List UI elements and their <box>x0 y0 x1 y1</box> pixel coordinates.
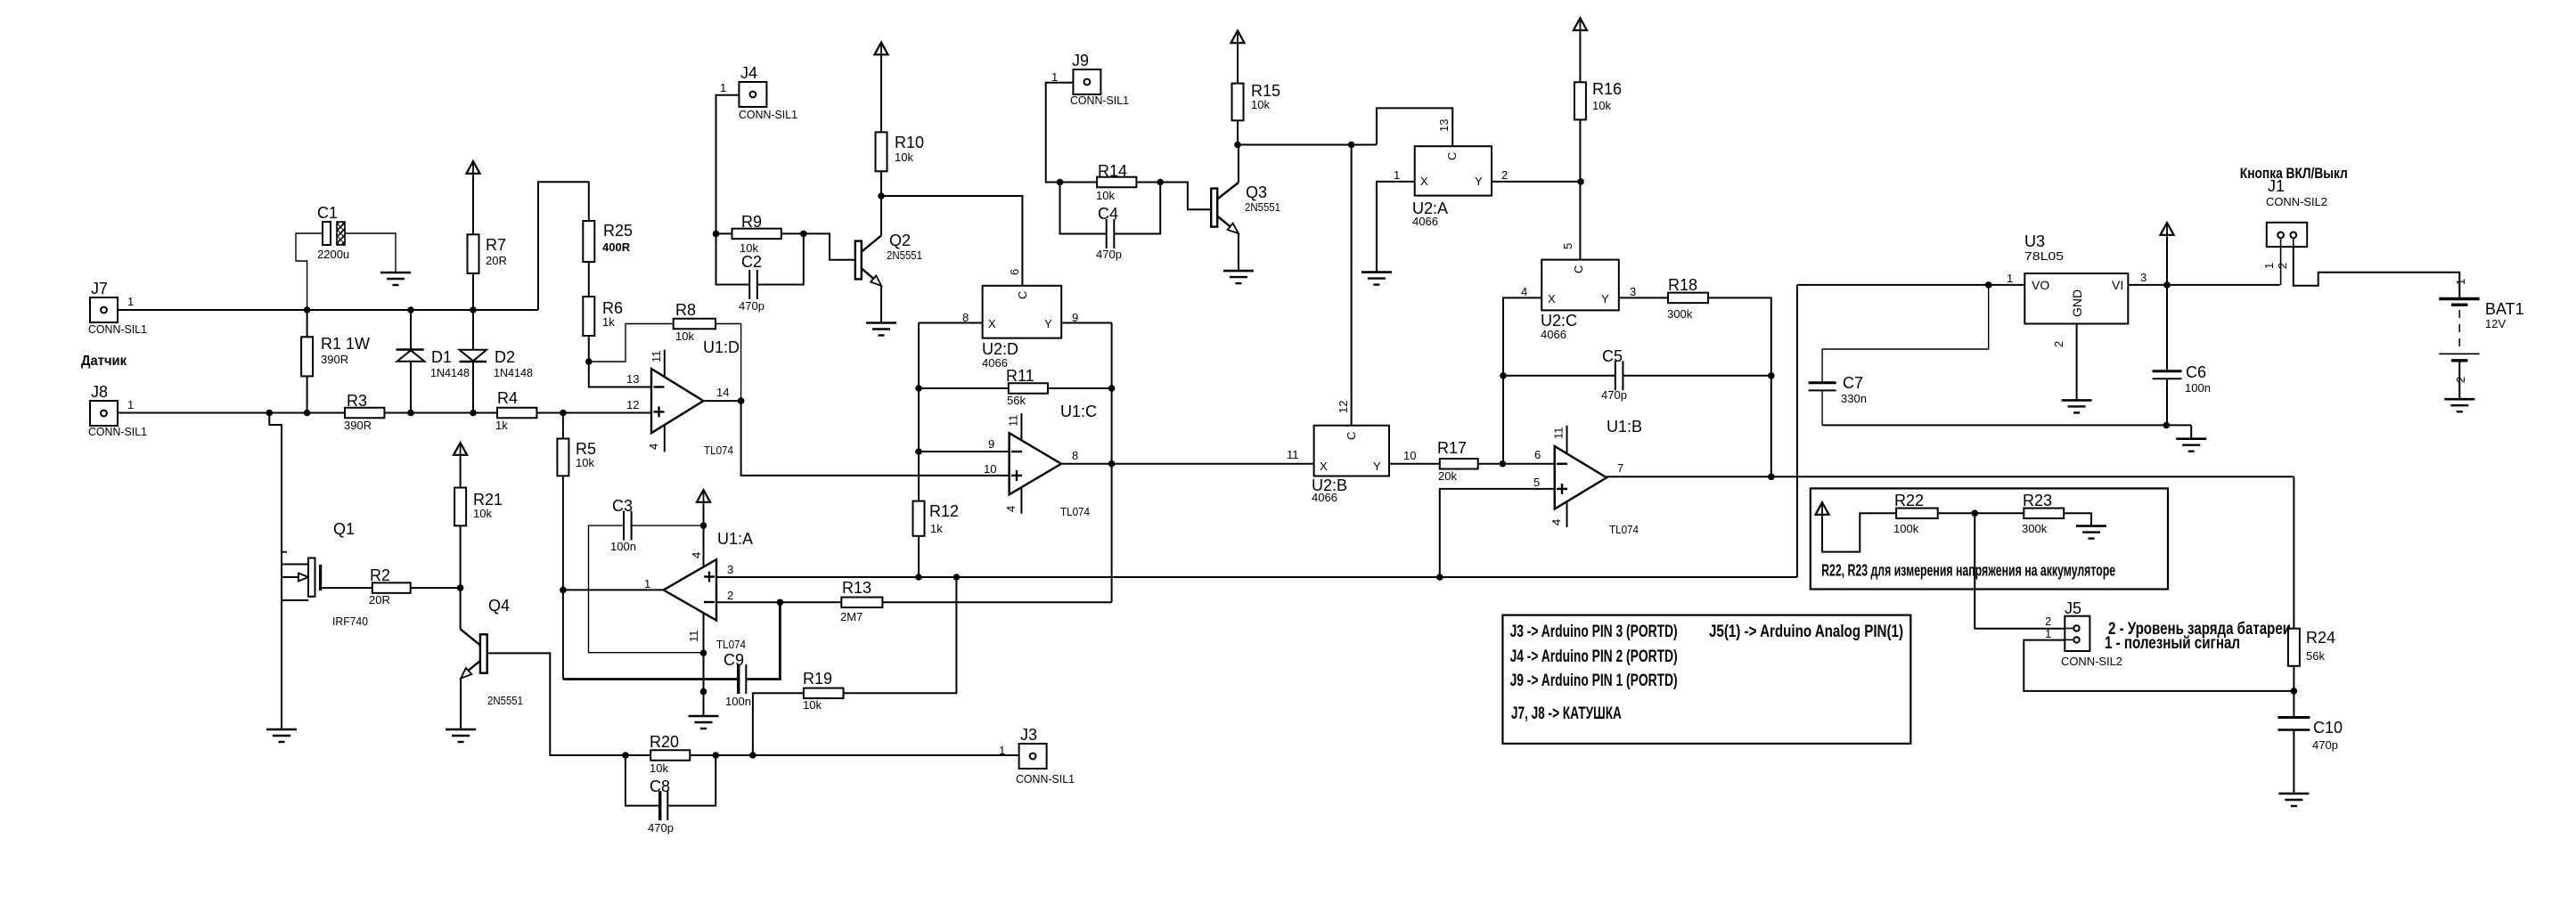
svg-text:R9: R9 <box>741 213 762 231</box>
svg-text:4: 4 <box>1550 519 1563 525</box>
svg-text:20k: 20k <box>1438 469 1457 483</box>
svg-text:Q2: Q2 <box>889 232 911 249</box>
svg-text:4066: 4066 <box>1541 328 1566 341</box>
svg-text:1: 1 <box>2007 272 2013 285</box>
svg-text:10k: 10k <box>650 761 668 775</box>
svg-text:2: 2 <box>2052 341 2065 347</box>
svg-text:4066: 4066 <box>982 356 1008 370</box>
svg-text:20R: 20R <box>369 593 390 607</box>
svg-text:U1:C: U1:C <box>1060 403 1097 420</box>
svg-text:IRF740: IRF740 <box>332 615 368 628</box>
svg-text:R20: R20 <box>650 733 679 751</box>
svg-text:10: 10 <box>984 462 996 476</box>
svg-text:13: 13 <box>1437 119 1451 132</box>
svg-text:C: C <box>1016 291 1029 299</box>
svg-text:2N5551: 2N5551 <box>1245 200 1280 214</box>
svg-text:J3: J3 <box>1020 726 1037 744</box>
svg-text:R3: R3 <box>347 392 367 410</box>
svg-text:R7: R7 <box>486 236 506 254</box>
svg-text:3: 3 <box>2140 271 2147 284</box>
svg-text:U2:D: U2:D <box>982 340 1018 358</box>
svg-text:2: 2 <box>2045 615 2051 628</box>
svg-text:4: 4 <box>1004 506 1018 512</box>
svg-text:300k: 300k <box>1667 307 1693 321</box>
svg-text:1k: 1k <box>602 315 615 329</box>
svg-text:10k: 10k <box>1592 99 1611 112</box>
svg-text:20R: 20R <box>486 254 507 267</box>
svg-text:C5: C5 <box>1602 347 1623 365</box>
svg-text:2: 2 <box>2454 377 2467 383</box>
svg-text:U1:A: U1:A <box>717 530 753 548</box>
svg-text:100n: 100n <box>725 695 751 708</box>
svg-text:J5: J5 <box>2065 599 2081 617</box>
svg-text:4: 4 <box>1521 285 1527 298</box>
svg-text:1: 1 <box>127 295 134 308</box>
svg-text:Кнопка ВКЛ/Выкл: Кнопка ВКЛ/Выкл <box>2240 165 2348 182</box>
svg-text:BAT1: BAT1 <box>2485 300 2524 318</box>
svg-text:100n: 100n <box>610 540 636 553</box>
svg-text:C1: C1 <box>317 204 338 222</box>
svg-text:U3: U3 <box>2024 232 2045 250</box>
svg-text:13: 13 <box>626 372 639 386</box>
svg-text:400R: 400R <box>602 240 631 254</box>
svg-text:1 - полезный сигнал: 1 - полезный сигнал <box>2105 634 2240 653</box>
svg-text:56k: 56k <box>1007 394 1026 407</box>
svg-text:C2: C2 <box>741 253 762 271</box>
svg-text:4: 4 <box>690 552 703 558</box>
svg-text:78L05: 78L05 <box>2024 249 2064 263</box>
svg-text:4: 4 <box>647 444 660 450</box>
svg-text:470p: 470p <box>648 821 674 835</box>
svg-text:14: 14 <box>716 386 729 399</box>
svg-text:11: 11 <box>650 351 663 363</box>
svg-text:300k: 300k <box>2022 522 2048 535</box>
svg-text:330n: 330n <box>1841 392 1867 405</box>
svg-text:C6: C6 <box>2186 363 2206 381</box>
svg-text:R23: R23 <box>2023 492 2052 509</box>
svg-text:470p: 470p <box>1601 388 1627 402</box>
svg-text:C9: C9 <box>724 651 744 669</box>
svg-text:J1: J1 <box>2268 177 2285 195</box>
svg-text:Y: Y <box>1373 460 1381 473</box>
svg-text:Y: Y <box>1475 175 1483 188</box>
svg-text:C7: C7 <box>1843 374 1863 392</box>
svg-text:10k: 10k <box>1251 98 1270 111</box>
svg-text:J8: J8 <box>91 383 108 401</box>
svg-text:R21: R21 <box>473 491 503 509</box>
svg-text:10k: 10k <box>473 507 492 520</box>
svg-text:11: 11 <box>1007 415 1020 427</box>
svg-text:R5: R5 <box>576 440 596 458</box>
svg-text:R19: R19 <box>803 670 832 688</box>
svg-text:U2:C: U2:C <box>1541 312 1577 330</box>
svg-text:VO: VO <box>2032 278 2049 292</box>
svg-text:5: 5 <box>1533 476 1540 489</box>
svg-text:CONN-SIL1: CONN-SIL1 <box>739 108 797 121</box>
svg-text:470p: 470p <box>2312 738 2338 752</box>
svg-text:CONN-SIL2: CONN-SIL2 <box>2061 655 2122 668</box>
svg-text:J5(1) -> Arduino Analog PIN(1): J5(1) -> Arduino Analog PIN(1) <box>1709 622 1903 641</box>
svg-text:C4: C4 <box>1098 205 1118 223</box>
svg-text:R13: R13 <box>842 579 871 597</box>
svg-text:R14: R14 <box>1098 162 1127 180</box>
svg-text:1: 1 <box>2045 627 2051 640</box>
svg-text:10k: 10k <box>675 330 694 343</box>
svg-text:10k: 10k <box>1096 189 1115 202</box>
svg-text:2N5551: 2N5551 <box>887 248 922 262</box>
svg-text:11: 11 <box>687 631 700 643</box>
svg-text:470p: 470p <box>739 299 765 313</box>
svg-text:R6: R6 <box>602 299 623 317</box>
svg-text:J3 -> Arduino PIN 3 (PORTD): J3 -> Arduino PIN 3 (PORTD) <box>1510 622 1678 641</box>
svg-text:1: 1 <box>720 81 726 94</box>
svg-text:J4: J4 <box>740 64 757 82</box>
svg-text:100n: 100n <box>2185 381 2211 395</box>
svg-text:4066: 4066 <box>1412 215 1438 228</box>
svg-text:100k: 100k <box>1893 522 1919 535</box>
svg-text:1k: 1k <box>495 419 508 432</box>
svg-text:6: 6 <box>1534 448 1541 461</box>
svg-text:TL074: TL074 <box>1060 505 1090 518</box>
svg-text:9: 9 <box>988 437 994 451</box>
svg-text:Q1: Q1 <box>333 520 355 538</box>
svg-text:R1 1W: R1 1W <box>321 335 370 353</box>
svg-text:X: X <box>1420 175 1428 188</box>
svg-text:11: 11 <box>1287 448 1299 461</box>
svg-text:10k: 10k <box>895 151 913 164</box>
svg-text:1: 1 <box>999 744 1005 757</box>
svg-text:56k: 56k <box>2306 649 2325 663</box>
svg-text:CONN-SIL2: CONN-SIL2 <box>2266 195 2327 208</box>
svg-text:D2: D2 <box>495 348 515 366</box>
svg-text:11: 11 <box>1552 427 1566 440</box>
svg-text:2N5551: 2N5551 <box>487 694 523 707</box>
svg-text:2: 2 <box>727 589 733 602</box>
svg-text:GND: GND <box>2070 289 2084 317</box>
svg-text:10k: 10k <box>576 456 594 469</box>
svg-text:4066: 4066 <box>1312 491 1337 504</box>
svg-text:1N4148: 1N4148 <box>430 366 470 379</box>
svg-text:R4: R4 <box>497 389 518 407</box>
svg-text:10k: 10k <box>803 698 822 712</box>
svg-text:J7: J7 <box>91 280 108 297</box>
svg-text:C: C <box>1445 152 1459 160</box>
svg-text:1: 1 <box>644 577 650 590</box>
svg-text:12: 12 <box>1337 401 1350 413</box>
svg-text:U1:B: U1:B <box>1607 418 1642 436</box>
svg-text:X: X <box>988 317 996 330</box>
svg-text:2200u: 2200u <box>317 248 349 261</box>
svg-text:Y: Y <box>1044 317 1052 330</box>
svg-text:U1:D: U1:D <box>703 338 740 356</box>
svg-text:R18: R18 <box>1668 276 1697 294</box>
svg-text:2: 2 <box>2276 263 2289 269</box>
svg-text:1k: 1k <box>930 522 943 535</box>
svg-text:J4 -> Arduino PIN 2 (PORTD): J4 -> Arduino PIN 2 (PORTD) <box>1510 647 1678 666</box>
svg-text:X: X <box>1320 460 1328 473</box>
svg-text:C8: C8 <box>650 778 670 795</box>
svg-text:8: 8 <box>1072 449 1078 462</box>
svg-text:R22: R22 <box>1894 492 1924 509</box>
svg-text:R10: R10 <box>895 134 924 151</box>
svg-text:R15: R15 <box>1251 82 1280 100</box>
svg-text:3: 3 <box>1630 285 1636 298</box>
svg-text:2M7: 2M7 <box>840 610 863 623</box>
svg-text:R22, R23 для измерения напряж: R22, R23 для измерения напряжения на акк… <box>1821 560 2115 579</box>
svg-text:R8: R8 <box>675 301 696 319</box>
svg-text:12: 12 <box>626 398 639 411</box>
svg-text:C: C <box>1572 265 1585 273</box>
svg-text:R17: R17 <box>1437 439 1467 457</box>
svg-text:R11: R11 <box>1006 367 1034 385</box>
svg-text:10: 10 <box>1403 449 1416 462</box>
svg-text:J7, J8 -> КАТУШКА: J7, J8 -> КАТУШКА <box>1511 704 1622 723</box>
svg-text:Q4: Q4 <box>488 597 510 615</box>
svg-text:J9: J9 <box>1072 52 1089 69</box>
svg-text:1: 1 <box>1394 168 1400 182</box>
svg-text:CONN-SIL1: CONN-SIL1 <box>88 425 147 438</box>
svg-text:X: X <box>1548 292 1556 305</box>
svg-text:R2: R2 <box>370 566 390 584</box>
svg-text:6: 6 <box>1008 269 1021 275</box>
svg-text:R12: R12 <box>929 502 959 520</box>
svg-text:Q3: Q3 <box>1246 183 1267 201</box>
svg-text:R16: R16 <box>1592 80 1622 98</box>
svg-text:TL074: TL074 <box>704 444 733 457</box>
svg-text:5: 5 <box>1561 243 1574 249</box>
svg-text:1N4148: 1N4148 <box>494 366 533 379</box>
svg-text:CONN-SIL1: CONN-SIL1 <box>1016 772 1075 786</box>
svg-text:R25: R25 <box>603 222 633 240</box>
svg-text:Датчик: Датчик <box>81 354 127 369</box>
svg-text:390R: 390R <box>321 353 348 366</box>
svg-text:Y: Y <box>1601 292 1609 305</box>
svg-text:CONN-SIL1: CONN-SIL1 <box>88 322 147 336</box>
svg-text:1: 1 <box>127 398 134 411</box>
svg-text:3: 3 <box>727 563 733 576</box>
svg-text:1: 1 <box>2454 279 2467 285</box>
svg-text:7: 7 <box>1617 461 1623 475</box>
svg-text:C: C <box>1345 432 1358 440</box>
svg-text:C10: C10 <box>2313 719 2343 737</box>
svg-text:470p: 470p <box>1096 248 1122 261</box>
svg-text:2: 2 <box>1501 168 1508 182</box>
svg-text:TL074: TL074 <box>716 638 746 651</box>
svg-text:TL074: TL074 <box>1609 523 1639 536</box>
svg-text:1: 1 <box>2262 263 2276 269</box>
svg-text:D1: D1 <box>431 348 452 366</box>
svg-text:R24: R24 <box>2306 629 2335 647</box>
svg-text:12V: 12V <box>2485 317 2506 330</box>
svg-text:C3: C3 <box>612 497 633 515</box>
svg-text:J9 -> Arduino PIN 1 (PORTD): J9 -> Arduino PIN 1 (PORTD) <box>1510 671 1678 690</box>
svg-text:VI: VI <box>2112 278 2123 292</box>
svg-text:CONN-SIL1: CONN-SIL1 <box>1070 94 1129 107</box>
svg-text:390R: 390R <box>344 419 372 432</box>
